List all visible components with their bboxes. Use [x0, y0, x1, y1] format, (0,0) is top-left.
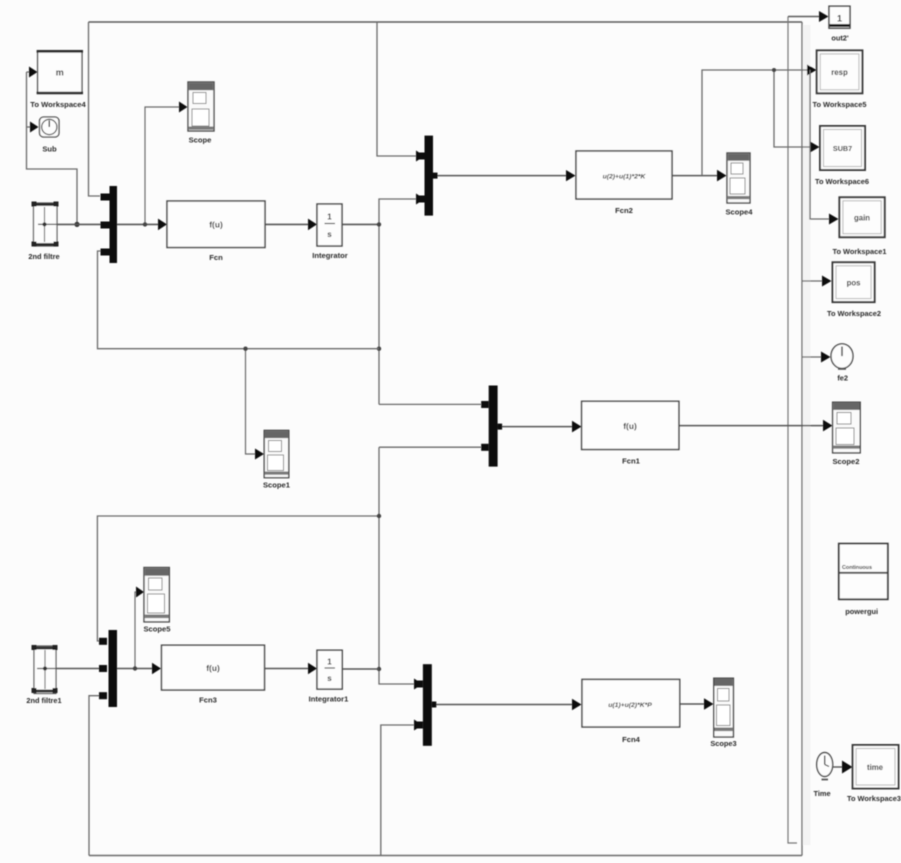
- block: To Workspace4 "m": [30, 51, 86, 109]
- wire: center vertical from top wire to mux2 input1: [377, 22, 425, 162]
- svg-text:1: 1: [327, 658, 332, 667]
- block: Integrator1 1/s (bottom): [309, 650, 349, 703]
- svg-text:To Workspace6: To Workspace6: [815, 177, 869, 186]
- wire: bottom horizontal net y=855: [89, 855, 802, 857]
- svg-text:Fcn2: Fcn2: [615, 206, 633, 215]
- wire: tap to Scope (145,224)-(145,107)-(188,107): [143, 102, 188, 227]
- svg-text:f(u): f(u): [623, 421, 637, 431]
- svg-text:f(u): f(u): [206, 663, 220, 673]
- svg-text:Fcn: Fcn: [209, 253, 223, 262]
- svg-text:To Workspace1: To Workspace1: [833, 247, 887, 256]
- svg-text:To Workspace5: To Workspace5: [813, 100, 867, 109]
- wire: mux1 out -> Fcn: [117, 219, 167, 231]
- wire: center lower bus x=379 y=447..684: [377, 447, 423, 689]
- svg-text:out2': out2': [831, 34, 849, 43]
- wire: bottom-left vertical up to mux3 input3: [89, 696, 100, 856]
- svg-text:Integrator1: Integrator1: [309, 695, 349, 704]
- wire: left cluster loop x=26.5 feeding To Workspace4 and Sub: [27, 67, 80, 227]
- wire: lowest bus x=380.8 from bottom net up to mux5 input2 y=725: [381, 720, 423, 856]
- wire: stub B to circle port y=357: [802, 352, 831, 363]
- svg-text:1: 1: [837, 14, 842, 24]
- svg-text:To Workspace2: To Workspace2: [827, 309, 881, 318]
- wire: center upper bus x=379 y=199..404: [377, 194, 425, 405]
- block: To Workspace2 "pos": [827, 262, 881, 318]
- svg-text:Integrator: Integrator: [312, 251, 347, 260]
- svg-text:Scope4: Scope4: [725, 208, 753, 217]
- svg-text:Time: Time: [813, 789, 830, 798]
- wire: Fcn2 out -> Scope4 y=176: [672, 170, 727, 182]
- block: Fcn1 f(u) (middle): [582, 401, 679, 465]
- mux: Mux5 (2 inputs, bottom): [415, 664, 436, 746]
- wire: mux4 out -> Fcn1 y=426.6: [498, 421, 582, 433]
- wire: right vertical B (803,23)-(803,855): [801, 22, 803, 856]
- svg-text:SUB7: SUB7: [833, 144, 852, 153]
- wire: mux4 input2 feed y=447.2: [379, 446, 481, 448]
- block: Scope4: [725, 153, 753, 217]
- wire: clock -> time workspace stub y=767: [833, 761, 853, 774]
- wire: Integrator1 out -> center lower bus: [342, 668, 379, 670]
- wire: mux4 input1 feed y=404.4: [379, 403, 481, 405]
- block: fe2 circle port: [831, 344, 853, 383]
- svg-text:Fcn4: Fcn4: [622, 735, 641, 744]
- block: Scope2: [832, 402, 860, 466]
- wire: tap to Scope1 at x=245.5: [243, 347, 264, 460]
- svg-text:Scope1: Scope1: [263, 481, 291, 490]
- svg-text:Continuous: Continuous: [842, 565, 872, 571]
- wire: mux3 out -> Fcn3: [117, 663, 161, 675]
- svg-text:fe2: fe2: [837, 374, 848, 383]
- mux: Mux2 (2 inputs): [417, 136, 438, 216]
- block: To Workspace1 "gain": [833, 197, 887, 256]
- block: Sub clock port: [40, 117, 60, 154]
- block: Scope (top): [188, 82, 214, 145]
- wire: stub B to pos workspace y=281: [802, 276, 832, 287]
- svg-text:To Workspace4: To Workspace4: [30, 100, 86, 109]
- svg-text:Scope3: Scope3: [710, 739, 736, 748]
- wire: right vertical A (788,17)-(788,843): [788, 17, 797, 844]
- wire: Fcn4 out -> Scope3 y=704: [680, 698, 714, 710]
- block: Fcn3 f(u) (bottom): [162, 645, 265, 704]
- block: source 2nd filtre2 (top): [28, 202, 59, 262]
- svg-text:2nd filtre1: 2nd filtre1: [26, 696, 61, 705]
- svg-text:f(u): f(u): [209, 220, 223, 230]
- block: To Workspace5 "resp": [813, 50, 867, 109]
- svg-text:To Workspace3: To Workspace3: [847, 794, 901, 803]
- svg-text:Fcn3: Fcn3: [199, 696, 217, 705]
- svg-text:u(2)+u(1)*2*K: u(2)+u(1)*2*K: [603, 174, 647, 181]
- block: Fcn2 u(2)+u(1)*2*K: [576, 151, 672, 215]
- svg-text:gain: gain: [854, 214, 870, 223]
- svg-text:u(1)+u(2)*K*P: u(1)+u(2)*K*P: [608, 702, 652, 709]
- wire: tap to Scope5 (135,668)-(135,592)-(144,592): [133, 587, 144, 671]
- wire: branch x=774 down to SUB7 workspace y=147: [772, 68, 820, 153]
- wire: Integrator out -> center bus: [342, 223, 379, 225]
- wire: top horizontal net x=88..803 at y=23: [89, 21, 803, 23]
- wire: bottom chain source1->mux3 y=668.5: [56, 668, 101, 670]
- block: powergui: [839, 544, 888, 616]
- mux: Mux1 (3 inputs): [101, 186, 118, 263]
- block: Scope5: [143, 568, 171, 634]
- wire: branch (702,176) up to y=70 then to resp workspace: [702, 65, 817, 176]
- block: Fcn f(u): [167, 201, 265, 262]
- wire: feedback mux1 input3 left-down-right y=348.7: [98, 251, 380, 349]
- wire: branch C x=810 down to gain workspace y=219: [810, 70, 839, 225]
- svg-text:pos: pos: [847, 279, 862, 288]
- svg-text:time: time: [867, 763, 884, 772]
- svg-text:1: 1: [327, 213, 332, 222]
- block: out2 port: [829, 6, 850, 42]
- svg-text:s: s: [327, 674, 332, 683]
- block: Scope3: [710, 678, 736, 748]
- svg-text:m: m: [56, 68, 64, 78]
- svg-text:resp: resp: [831, 68, 848, 77]
- svg-text:powergui: powergui: [845, 607, 878, 616]
- block: To Workspace3 "time": [847, 745, 901, 803]
- svg-text:s: s: [327, 230, 332, 239]
- wire: main top chain source->mux1 y=224.4: [57, 223, 101, 225]
- wire: Fcn1 out -> Scope2 y=425.6: [679, 420, 833, 432]
- wire: right bus light band: [803, 25, 811, 845]
- mux: Mux3 (3 inputs, bottom): [99, 630, 117, 707]
- wire: V1 left vertical (88.5,23)-(88.5,196) into mux1 input1: [89, 22, 101, 196]
- svg-text:Scope5: Scope5: [143, 625, 171, 634]
- block: To Workspace6 "SUB7": [815, 126, 869, 186]
- svg-text:2nd filtre: 2nd filtre: [28, 252, 59, 261]
- svg-text:Fcn1: Fcn1: [622, 457, 641, 466]
- wire: lower-left loop y=516 feeding mux3 input1: [97, 516, 379, 641]
- wire: mux2 out -> Fcn2 y=176: [433, 170, 576, 181]
- wire: Fcn out -> Integrator: [265, 219, 317, 231]
- wire: stub A to out2 port at y=17: [788, 11, 829, 22]
- block: Clock (bottom right): [813, 753, 832, 799]
- svg-text:Scope2: Scope2: [832, 457, 859, 466]
- block: Fcn4 u(1)+u(2)*K*P (bottom): [582, 679, 680, 744]
- block: Scope1: [263, 430, 291, 489]
- mux: Mux4 (2 inputs, middle): [481, 386, 502, 467]
- wire: Fcn3 out -> Integrator1: [265, 663, 318, 675]
- svg-text:Sub: Sub: [42, 145, 57, 154]
- wire: mux5 out -> Fcn4 y=704.5: [432, 699, 582, 711]
- block: Integrator 1/s: [312, 204, 347, 260]
- svg-text:Scope: Scope: [189, 136, 212, 145]
- block: source 2nd filtre1 (bottom): [26, 645, 61, 705]
